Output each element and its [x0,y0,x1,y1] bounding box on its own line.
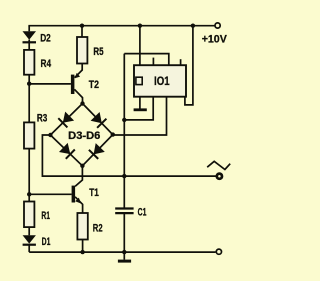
node top rail / IO1 pin [138,24,142,28]
wire IO1 pin top1 from rail [139,26,141,65]
pin 1 notch of IO1 [136,77,142,84]
wire C1 top lead [123,54,125,208]
svg-text:D3-D6: D3-D6 [68,130,100,142]
terminal +10V [215,23,220,28]
svg-text:R2: R2 [93,222,103,234]
svg-text:+10V: +10V [202,34,227,46]
bridge diamond edges D3-D6 [50,104,112,166]
wire T1 base [29,193,71,195]
svg-text:R1: R1 [41,210,50,222]
pin IO1 top stub b [180,59,182,65]
AC sine symbol [207,161,230,169]
wire R3 to R1 [28,149,30,202]
wire T1 emitter to R2 [75,197,83,213]
wire bridge bottom ground stub [123,252,125,260]
transistor T1 [72,186,82,204]
wire D2 to R4 [28,40,30,50]
wire T1 collector to bridge bottom [75,166,82,187]
wire IO1 pin2 to C1 line [124,97,153,120]
wire D1 to bottom rail [28,245,30,253]
capacitor C1 [115,209,133,214]
node R4-R3 / T2 base [27,82,31,86]
pin IO1 ground lead [139,97,141,109]
node bridge left [48,133,52,137]
wire R1 to D1 [28,227,30,235]
svg-text:D1: D1 [42,236,51,248]
svg-text:T2: T2 [89,79,99,91]
resistor R4 [24,50,34,75]
wire R2 to bottom rail [82,240,84,253]
svg-text:D2: D2 [40,33,51,45]
wire bridge left node to AC line [42,135,217,176]
diode D5 lower-left of bridge [59,143,75,159]
wire R4 to R3 [28,75,30,123]
wire T2 base [29,83,71,85]
diode D2 [23,31,37,42]
wire bottom rail [29,251,215,253]
node bottom rail / C1 ground [122,250,126,254]
node C1 line / AC line [122,174,126,178]
ground under IO1 [134,108,147,111]
diode D1 [23,235,36,244]
wire T2 emitter diagonal [75,70,83,78]
svg-text:R4: R4 [41,58,52,70]
node bottom rail / R2 [80,250,84,254]
svg-text:R3: R3 [37,113,47,125]
wire T2 collector to bridge top [74,89,82,103]
wire IO1 pin4 to supply rail [185,26,193,105]
IC IO1 [134,65,186,97]
node bridge bottom [80,164,84,168]
wire C1 bottom lead [123,214,125,252]
node top rail / IO1 supply [191,24,195,28]
svg-text:IO1: IO1 [154,75,170,88]
node R3-R1 / T1 base [27,192,31,196]
svg-text:T1: T1 [89,187,99,199]
node bridge right [111,132,115,136]
resistor R1 [24,202,34,228]
ground at bottom rail [118,260,131,263]
pin IO1 top stub a [152,58,154,66]
transistor T2 [71,73,80,94]
wire IO1 top connecting wire [124,54,169,66]
wire left rail drop to D2 [28,26,30,32]
node top rail / R5 [80,24,84,28]
diode D4 upper-right of bridge [91,112,107,128]
resistor R2 [77,213,87,240]
node bridge top [80,101,84,105]
resistor R3 [24,122,34,148]
diode D6 lower-right of bridge [89,143,105,159]
wire R5 to T2 emitter [81,64,83,71]
terminal AC input [217,174,222,179]
wire IO1 pin3 to bridge right node [113,97,167,135]
svg-text:R5: R5 [93,46,103,58]
terminal bottom [216,249,221,254]
resistor R5 [77,37,87,64]
node C1 line / pin2 wire [122,118,126,122]
diode D3 upper-left of bridge [58,112,74,128]
wire rail to R5 [81,26,83,37]
svg-text:C1: C1 [138,207,147,219]
wire top supply rail [28,25,215,27]
